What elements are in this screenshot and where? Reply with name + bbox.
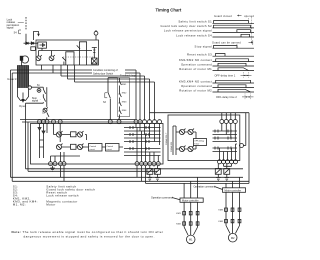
svg-text:Stop signal: Stop signal (195, 45, 213, 49)
door switch S2 box (36, 40, 99, 65)
timing chart waveforms (213, 15, 255, 100)
dashed transition lines (237, 17, 252, 48)
KM4 NC contact (feedback) (119, 108, 122, 117)
wave S1 (213, 22, 255, 24)
wave S2 (213, 27, 255, 29)
diode rects near coils (71, 132, 77, 137)
left wrap wires (11, 70, 244, 177)
svg-text:KM1: KM1 (122, 84, 127, 86)
svg-text:Guard closed: Guard closed (214, 15, 232, 18)
switch S4 bracket (19, 30, 21, 34)
off delay dimension 1 (244, 72, 249, 78)
svg-text:KM3,KM4 NO contact: KM3,KM4 NO contact (179, 79, 212, 83)
unit2 contact matrix (213, 131, 238, 152)
KM1 NC contact (feedback) (119, 78, 122, 90)
svg-text:Lock release switch: Lock release switch (46, 194, 78, 198)
wire S4 to box (25, 34, 27, 40)
svg-text:OFF-delay time 2: OFF-delay time 2 (216, 96, 237, 99)
wave KM12 contact (213, 61, 255, 63)
KM3 NC contact (feedback) (119, 99, 122, 108)
wave operation command 2 (213, 87, 255, 89)
svg-text:OFF-Delay: OFF-Delay (194, 141, 204, 143)
svg-text:M1: M1 (189, 238, 193, 242)
svg-text:Control: Control (107, 145, 114, 148)
left motor controller (180, 198, 203, 202)
LED indicator 2 (49, 56, 54, 61)
long wire to right unit (150, 113, 250, 146)
wires unit2 bottom to buses (224, 164, 232, 167)
svg-text:Operation command: Operation command (151, 197, 173, 200)
svg-text:Safety limit switch S1: Safety limit switch S1 (178, 20, 212, 24)
svg-text:Operation command: Operation command (194, 185, 216, 188)
unit1 contact matrix (124, 128, 161, 156)
svg-text:Guard lock safety door switch: Guard lock safety door switch S2 (161, 24, 213, 28)
unit2 coil K3 (179, 146, 184, 151)
wave rotation M1 (213, 70, 255, 72)
wave reset S3 (213, 55, 255, 57)
KM2 coil (155, 169, 161, 175)
svg-text:circuit: circuit (107, 148, 113, 151)
svg-text:Rotation of motor M2: Rotation of motor M2 (179, 88, 212, 92)
bus drop wires to unit terminals (136, 70, 155, 120)
ground below unit1 left (50, 166, 55, 172)
svg-text:Lock release permission signal: Lock release permission signal (164, 29, 212, 33)
right branch three phase (226, 177, 240, 188)
svg-text:Motor controller: Motor controller (182, 199, 199, 202)
small component under diode row (31, 47, 36, 51)
svg-text:Motor controller: Motor controller (225, 189, 242, 192)
svg-text:KM3: KM3 (218, 210, 223, 212)
wave S4 (213, 36, 255, 38)
svg-text:Reset switch S3: Reset switch S3 (187, 53, 212, 57)
wave stop signal (213, 47, 255, 49)
LED indicator 1 (36, 56, 41, 61)
unit2 coil K1 (179, 129, 184, 134)
svg-text:Operation command: Operation command (181, 84, 212, 88)
safety limit switch S1 (32, 86, 44, 88)
KM3 contacts (right branch) (225, 208, 228, 211)
svg-text:M1, M2:: M1, M2: (13, 203, 26, 207)
wires unit1 to unit2 (222, 113, 236, 120)
stop signal contact (43, 97, 45, 103)
KM1 KM2 coil wires and grounds (150, 166, 158, 169)
note (12, 230, 164, 238)
svg-text:Operation command: Operation command (181, 62, 212, 66)
svg-text:KM3: KM3 (122, 101, 127, 103)
svg-text:Guard can be opened: Guard can be opened (212, 41, 241, 44)
off delay dimension 2 (245, 94, 251, 100)
guard can be opened bracket (249, 40, 253, 45)
stop wire wrap left (26, 102, 44, 104)
diode row to S4 wire (24, 42, 38, 44)
svg-text:KM4: KM4 (122, 110, 127, 112)
svg-text:Open: Open (19, 104, 27, 108)
svg-text:Timer: Timer (194, 144, 199, 146)
svg-text:Control: Control (90, 145, 97, 148)
svg-text:Rotation of motor M1: Rotation of motor M1 (179, 67, 212, 71)
KM3 KM4 coil wires and grounds (218, 164, 227, 169)
far right power wire (248, 113, 250, 184)
elbow arrow into box (34, 32, 39, 41)
unit1 top terminals (38, 120, 162, 124)
unit1 bottom terminals (49, 162, 161, 166)
svg-text:Motor: Motor (46, 203, 55, 207)
right safety relay unit box (168, 115, 240, 161)
svg-text:G9SA-301: G9SA-301 (170, 141, 173, 152)
delay circuit box (106, 144, 120, 152)
svg-text:Guard: Guard (7, 77, 16, 81)
svg-text:Lock release switch S4: Lock release switch S4 (176, 33, 212, 37)
wire lock release permission signal (dashed) (25, 17, 27, 30)
svg-text:opened: opened (244, 15, 254, 18)
relay coil K2 (77, 132, 82, 137)
unit2 coil K2 (188, 129, 193, 134)
left safety relay unit box (31, 124, 164, 165)
open arrow (22, 93, 24, 100)
rectifier box inside S2 (38, 42, 47, 48)
unit2 right side terminal (240, 144, 244, 148)
wave rotation M2 (213, 91, 255, 93)
schematic small texts (7, 17, 107, 114)
KM labels in feedback box (122, 84, 127, 112)
KM1 contacts (left branch) (183, 212, 186, 215)
node stub with circle (box top right) (95, 35, 97, 40)
door switch head circle and key (21, 56, 28, 63)
svg-text:KM2: KM2 (122, 92, 127, 94)
reset switch S3 left (46, 87, 48, 107)
motor M1 (186, 235, 195, 244)
svg-text:signal: signal (32, 100, 39, 103)
unit2 coil K4 (188, 146, 193, 151)
relay coil K2b (77, 144, 82, 149)
svg-text:Feedback loop: Feedback loop (120, 75, 136, 78)
guard closed arrow (238, 15, 242, 16)
condition monitoring label (92, 68, 125, 75)
wires unit1 bottom to buses (137, 166, 154, 184)
KM3 coil (215, 169, 221, 175)
condition monitoring bus wires (11, 65, 137, 70)
unit2 bottom terminals (218, 160, 238, 164)
right branch converge to motor (226, 226, 240, 234)
KM contact labels (branches) (176, 210, 223, 226)
timing chart text (161, 20, 213, 93)
solenoid (92, 58, 98, 64)
reset switch S3 right (108, 93, 110, 120)
svg-text:KM2: KM2 (176, 223, 181, 225)
left branch three phase (184, 177, 198, 198)
mechanical link (dashed) (63, 56, 95, 58)
svg-text:KM1/KM2 NO contact: KM1/KM2 NO contact (179, 58, 212, 62)
left branch converge to motor (184, 227, 198, 235)
svg-text:KM1: KM1 (176, 213, 181, 215)
internal wiring unit1 (54, 124, 87, 140)
wire loop 1 (66, 52, 74, 65)
contact 11-12 (62, 57, 65, 65)
svg-text:signal: signal (7, 26, 14, 30)
KM4 contacts (right branch) (225, 219, 228, 222)
wave KM34 contact (213, 82, 255, 84)
relay coil K1 (56, 132, 61, 137)
control circuit box (89, 144, 103, 152)
KM1 coil (147, 169, 153, 175)
unit2 internal wires (176, 126, 196, 155)
unit2 top terminals (220, 120, 238, 124)
right motor controller (223, 188, 246, 193)
feedback loop box (118, 78, 130, 117)
svg-text:Timing Chart: Timing Chart (156, 8, 182, 13)
power wires A1 A2 (20, 120, 141, 123)
relay coil K1b (56, 144, 61, 149)
svg-text:Safety-door Switch: Safety-door Switch (93, 72, 114, 75)
contact 21-22 (77, 45, 80, 49)
svg-text:circuit: circuit (90, 148, 96, 151)
unit1 internal left diode chains (40, 124, 48, 158)
motor M2 (228, 233, 237, 242)
guard (hatched door) (17, 66, 31, 101)
legend (13, 185, 95, 207)
svg-text:dangerous movement is stopped: dangerous movement is stopped and safety… (24, 234, 155, 238)
wave lock release permission (213, 31, 255, 33)
KM2 contacts (left branch) (183, 222, 186, 225)
svg-text:OFF-delay time 1: OFF-delay time 1 (215, 74, 236, 77)
KM2 NC contact (feedback) (119, 90, 122, 100)
wire loop 2 (79, 42, 86, 65)
wire inside S2 (39, 48, 93, 50)
svg-text:G9SA-321-T: G9SA-321-T (165, 132, 168, 145)
off-delay box (194, 139, 207, 146)
svg-text:M2: M2 (231, 236, 235, 240)
bottom bus y183 (146, 182, 250, 184)
KM4 coil (224, 169, 230, 175)
svg-text:KM4: KM4 (218, 221, 223, 223)
wave operation command 1 (213, 65, 255, 67)
